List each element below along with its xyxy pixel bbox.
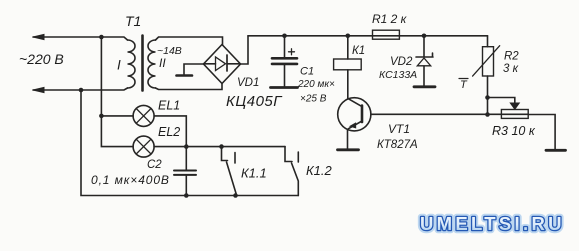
- node C1 tap: [282, 34, 287, 39]
- svg-text:C2: C2: [147, 159, 162, 171]
- potentiometer R3: [501, 103, 528, 118]
- relay coil K1: [334, 59, 362, 70]
- label T thermistor: [459, 79, 468, 92]
- wire R3 right lead: [528, 115, 555, 150]
- svg-text:К1.1: К1.1: [241, 166, 267, 181]
- svg-text:II: II: [159, 56, 166, 70]
- wire AC top lead: [33, 37, 128, 40]
- lamp EL1: [133, 105, 154, 126]
- capacitor C1: [272, 36, 297, 86]
- AC input arrow bottom: [33, 87, 44, 92]
- svg-text:К1.2: К1.2: [306, 163, 333, 178]
- wire bridge left vertex to chassis: [184, 64, 204, 74]
- svg-text:T: T: [460, 79, 468, 91]
- svg-text:UMELTSI.RU: UMELTSI.RU: [420, 213, 561, 234]
- transformer T1 core: [141, 36, 144, 91]
- wire lamp feeder vertical: [101, 37, 133, 147]
- wire emitter lead: [347, 130, 349, 149]
- wire EL1 right lead: [154, 116, 186, 147]
- relay contact К1.1: [219, 144, 236, 195]
- svg-text:R1 2 к: R1 2 к: [372, 12, 408, 26]
- node on AC top wire: [99, 35, 104, 40]
- node К1.1 bottom: [233, 193, 238, 198]
- svg-text:I: I: [117, 58, 121, 73]
- svg-text:К1: К1: [352, 45, 365, 57]
- transformer T1 secondary winding II: [148, 40, 156, 88]
- svg-text:C1: C1: [300, 66, 314, 78]
- svg-text:220 мк×: 220 мк×: [297, 79, 335, 90]
- chassis ground under emitter: [338, 148, 359, 151]
- node EL junction: [184, 144, 189, 149]
- wire EL2 right lead: [154, 146, 285, 148]
- svg-text:T1: T1: [125, 13, 141, 29]
- wire bridge right vertex to rail: [241, 36, 249, 64]
- chassis ground near bridge: [177, 74, 193, 77]
- svg-text:×25 В: ×25 В: [300, 94, 327, 105]
- chassis ground under C1: [271, 86, 298, 89]
- transformer T1 primary winding I: [128, 40, 136, 88]
- thermistor R2: [473, 46, 500, 76]
- svg-text:R2: R2: [504, 51, 519, 63]
- wire DC plus rail: [248, 35, 488, 37]
- node AC bottom junction: [79, 88, 84, 93]
- wire rail to R2: [487, 36, 489, 47]
- bridge rectifier VD1: [204, 45, 241, 84]
- svg-text:КТ827А: КТ827А: [377, 139, 418, 151]
- AC input arrow top: [33, 34, 44, 39]
- svg-text:0,1 мк×400В: 0,1 мк×400В: [91, 173, 170, 187]
- node C2 bottom: [184, 193, 189, 198]
- svg-text:~14В: ~14В: [157, 45, 182, 57]
- node VD2 tap: [422, 34, 427, 39]
- svg-text:~220 В: ~220 В: [19, 51, 64, 67]
- wire bottom rail: [81, 90, 298, 196]
- chassis ground right: [546, 149, 566, 152]
- transistor VT1: [338, 98, 371, 131]
- chassis ground under VD2: [414, 85, 435, 88]
- node K1 tap: [346, 34, 351, 39]
- svg-text:VD1: VD1: [237, 77, 259, 89]
- relay contact К1.2: [285, 147, 298, 196]
- wire K1 stem: [347, 36, 349, 59]
- svg-text:3 к: 3 к: [503, 63, 519, 75]
- svg-text:EL2: EL2: [158, 125, 180, 139]
- svg-text:КС133А: КС133А: [379, 69, 417, 81]
- resistor R1: [373, 30, 400, 39]
- zener diode VD2: [416, 36, 433, 86]
- wire wiper: [488, 98, 515, 104]
- watermark umeltsi.ru logo: [420, 213, 561, 234]
- lamp EL2: [133, 136, 154, 157]
- wire secondary bottom lead: [156, 84, 223, 90]
- wire R2 bottom: [487, 76, 489, 115]
- svg-text:EL1: EL1: [158, 99, 180, 113]
- wire K1 to collector: [347, 70, 349, 99]
- wire base rail: [371, 113, 528, 115]
- node EL1 branch: [99, 114, 104, 119]
- wire EL1 left lead: [101, 115, 133, 117]
- svg-text:КЦ405Г: КЦ405Г: [226, 93, 283, 110]
- svg-text:VT1: VT1: [388, 122, 410, 136]
- wire secondary top lead: [156, 37, 223, 45]
- capacitor C2: [174, 147, 196, 196]
- wire AC bottom lead: [33, 88, 128, 90]
- svg-text:R3 10 к: R3 10 к: [492, 124, 536, 138]
- svg-text:VD2: VD2: [390, 56, 413, 68]
- node base rail: [485, 112, 490, 117]
- node wiper tap: [485, 95, 490, 100]
